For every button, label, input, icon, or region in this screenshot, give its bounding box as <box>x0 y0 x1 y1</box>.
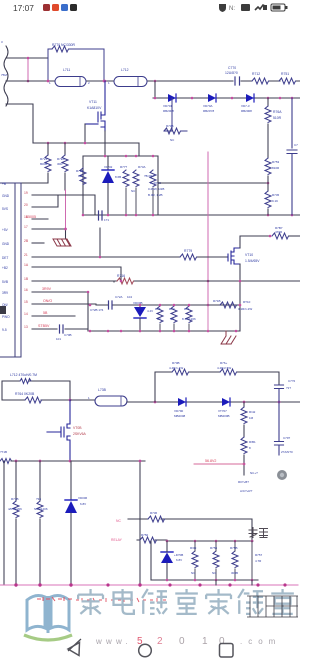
svg-text:B.0R, 1.2B: B.0R, 1.2B <box>148 193 163 197</box>
resistor R709 <box>192 551 198 568</box>
svg-text:2B: 2B <box>24 239 29 243</box>
wire diode rail y98 <box>153 81 300 98</box>
svg-text:R76+: R76+ <box>220 361 228 365</box>
wire bus y215 <box>83 214 300 216</box>
svg-text:5VS: 5VS <box>2 207 8 211</box>
svg-text:VD70A: VD70A <box>203 104 213 108</box>
svg-text:19: 19 <box>24 191 28 195</box>
svg-text:13: 13 <box>24 325 28 329</box>
svg-text:1M: 1M <box>249 416 254 420</box>
svg-text:C?2B 1?4: C?2B 1?4 <box>90 308 104 312</box>
inductor L711 <box>55 77 86 87</box>
resistor R751 <box>279 78 296 84</box>
svg-text:3R9V: 3R9V <box>42 287 52 291</box>
svg-text:1?1: 1?1 <box>104 218 109 222</box>
node dot (65.5,229) <box>64 228 67 231</box>
svg-text:R7E0: R7E0 <box>57 157 65 161</box>
zener VD00B <box>133 301 153 331</box>
svg-text:GND: GND <box>2 242 10 246</box>
SCHEMATIC SECTION 1 <box>0 40 300 357</box>
svg-text:R757: R757 <box>255 553 263 557</box>
wire bus y331 <box>90 330 240 332</box>
svg-text:R779: R779 <box>184 249 192 253</box>
node dot (70,400) <box>69 399 72 402</box>
wire row y282 <box>114 280 300 282</box>
svg-text:+5V: +5V <box>2 228 9 232</box>
svg-text:GND: GND <box>2 194 10 198</box>
node dot (95,81) <box>103 80 106 83</box>
svg-text:810R: 810R <box>272 166 280 170</box>
svg-text:8.1K/1206: 8.1K/1206 <box>182 317 196 321</box>
node dot (28,81) <box>27 80 30 83</box>
svg-text:VD006: VD006 <box>78 496 88 500</box>
wire source VT11 <box>104 131 106 156</box>
STATUS BAR <box>13 3 288 13</box>
diode VD790 <box>174 398 186 418</box>
small table grid over right watermark <box>247 596 298 617</box>
svg-text:14: 14 <box>24 312 28 316</box>
pin row y195 <box>32 195 95 215</box>
svg-text:R70B: R70B <box>172 361 180 365</box>
svg-text:L712 470uH/0.7M: L712 470uH/0.7M <box>10 373 37 377</box>
svg-text:K1A810V: K1A810V <box>87 106 102 110</box>
wire pink column x215 <box>207 152 209 305</box>
diode VD70A <box>203 94 216 113</box>
wire pink segment x28 <box>27 58 29 81</box>
wire bus right y580 <box>151 579 258 581</box>
svg-text:9.1K: 9.1K <box>272 199 278 203</box>
svg-text:R73B: R73B <box>166 124 174 128</box>
wire main rail y402 <box>127 401 300 403</box>
resistor R745 <box>267 183 269 191</box>
svg-text:2SKV6A: 2SKV6A <box>73 432 87 436</box>
svg-text:2: 2 <box>157 636 163 647</box>
svg-text:1A: 1A <box>24 263 29 267</box>
wire box sides <box>83 156 158 215</box>
resistor RV31 <box>243 425 245 437</box>
svg-text:R764 0K20B: R764 0K20B <box>15 392 35 396</box>
svg-text:?1?: ?1? <box>286 386 291 390</box>
MOSFET VT11 <box>85 81 105 131</box>
svg-text:R/09: R/09 <box>190 546 197 550</box>
svg-text:?34: ?34 <box>36 497 41 501</box>
pin row y304 <box>32 303 96 305</box>
svg-text:6.8V: 6.8V <box>176 558 182 562</box>
svg-text:R736: R736 <box>150 511 158 515</box>
resistor R716 <box>117 278 134 284</box>
svg-text:R73: R73 <box>169 307 175 311</box>
resistor R77x x126 <box>123 170 129 187</box>
svg-text:R721: R721 <box>40 157 48 161</box>
svg-text:C7?2: C7?2 <box>288 379 296 383</box>
svg-text:?B.0R?: ?B.0R? <box>144 174 154 178</box>
pin row y219 <box>32 218 48 220</box>
resistor R750 <box>140 537 157 543</box>
svg-text:R71B: R71B <box>11 497 19 501</box>
svg-text:VT10: VT10 <box>245 253 253 257</box>
resistor R73B x174 <box>171 306 177 323</box>
capacitor C707 on bus <box>99 211 103 220</box>
resistor R734b column x40 <box>39 461 41 501</box>
svg-text:12U/8?0: 12U/8?0 <box>225 71 238 75</box>
svg-text:101: 101 <box>56 337 61 341</box>
pin row y243 <box>32 242 44 244</box>
svg-text:2?A/N?0: 2?A/N?0 <box>281 450 293 454</box>
zener VD006 column x71 <box>70 461 72 500</box>
node dot (48,81) <box>47 80 50 83</box>
capacitor C72A <box>109 301 113 309</box>
capacitor C770 <box>235 77 240 85</box>
svg-text:R745: R745 <box>272 193 280 197</box>
svg-text:RELAY: RELAY <box>111 538 123 542</box>
resistor R764 (510R) on column x268 <box>267 98 269 106</box>
node dots diode rail <box>154 97 157 100</box>
svg-text:C79?: C79? <box>283 436 291 440</box>
svg-text:20: 20 <box>24 203 28 207</box>
svg-text:PWO: PWO <box>2 315 10 319</box>
inductor L712 coil on top rail <box>20 379 31 384</box>
pin row y292 <box>32 292 88 331</box>
resistor R770 <box>48 46 104 81</box>
svg-text:STB5V: STB5V <box>38 324 50 328</box>
node dot (28,58) <box>27 57 30 60</box>
wire into L730 <box>70 399 95 401</box>
svg-text:300B: 300B <box>231 571 238 575</box>
wire box top y156 <box>83 155 158 157</box>
ground symbol (slashes) <box>221 331 236 344</box>
wire bus bottom y585 full width (pink) <box>0 584 298 586</box>
node dot (244,464) <box>243 463 246 466</box>
capacitor C790 <box>275 402 284 455</box>
capacitor C70B on row y329 <box>60 325 64 333</box>
svg-text:4.4R/2.5W: 4.4R/2.5W <box>217 366 231 370</box>
svg-text:VD/02: VD/02 <box>104 165 113 169</box>
SCHEMATIC SECTION 2 <box>0 361 300 587</box>
pin row y316 <box>32 315 75 317</box>
node dot (145,81) <box>154 80 157 83</box>
resistor R712 <box>252 78 269 84</box>
pin row y257 (R779 gate row, drawn with main row) <box>32 256 100 258</box>
svg-text:0.1R/1.2W: 0.1R/1.2W <box>238 307 252 311</box>
svg-text:30R: 30R <box>57 162 63 166</box>
connector XS701 body <box>0 183 21 357</box>
svg-text:.com: .com <box>240 637 281 646</box>
svg-text:R770 NC/330R: R770 NC/330R <box>52 43 76 47</box>
svg-text:C72A: C72A <box>115 295 123 299</box>
wire row y143 <box>33 142 139 144</box>
MOSFET VT10 <box>228 248 240 264</box>
svg-text:15: 15 <box>24 300 28 304</box>
svg-text:17:07: 17:07 <box>13 3 34 13</box>
svg-text:A/C?+R?: A/C?+R? <box>240 489 253 493</box>
resistor R721 <box>47 143 49 155</box>
wire pink column x72 <box>65 190 67 233</box>
svg-text:0.25W, 1/2B: 0.25W, 1/2B <box>148 187 164 191</box>
pin row y267 <box>32 267 121 281</box>
svg-text:+D?0B: +D?0B <box>174 553 183 557</box>
resistor R779 <box>180 254 197 260</box>
resistor R738 (NC) below VD701 <box>164 98 187 131</box>
zener VD10B <box>150 541 152 580</box>
svg-text:21: 21 <box>24 253 28 257</box>
connector pin rows <box>32 195 121 331</box>
svg-text:75M: 75M <box>1 73 7 77</box>
svg-text:R0?+B?: R0?+B? <box>238 480 249 484</box>
wire row y253 gate VT10 <box>100 228 228 257</box>
resistor R728 on x83 <box>80 168 86 185</box>
red net 56.8V2 wire <box>194 463 244 465</box>
MOSFET VT06 <box>47 400 70 461</box>
watermark characters <box>78 589 294 615</box>
svg-text:?71B: ?71B <box>0 450 7 454</box>
svg-text:R712: R712 <box>252 72 260 76</box>
svg-text:9B: 9B <box>78 174 82 178</box>
svg-text:VT0B: VT0B <box>73 426 82 430</box>
svg-text:510R: 510R <box>273 116 282 120</box>
svg-text:5VB: 5VB <box>2 280 8 284</box>
svg-text:16: 16 <box>24 288 28 292</box>
svg-text:RT10: RT10 <box>243 300 251 304</box>
svg-text:4/R7/1206: 4/R7/1206 <box>8 507 22 511</box>
resistor column x252 <box>251 541 253 580</box>
snubber branch R708 R764 C7x2 <box>155 372 279 402</box>
resistor R753 <box>265 158 271 175</box>
resistor R756 <box>232 551 238 568</box>
svg-text:470R: 470R <box>275 230 283 234</box>
svg-text:4.4R/1.4W: 4.4R/1.4W <box>169 366 183 370</box>
svg-text:8.6B: 8.6B <box>115 175 121 179</box>
wire row y305 <box>96 304 240 306</box>
svg-text:R/B1: R/B1 <box>249 440 256 444</box>
pen mark <box>68 639 81 651</box>
wire main rail y81 <box>6 80 300 82</box>
diode VD707 <box>218 398 230 418</box>
svg-text:VT707: VT707 <box>218 409 227 413</box>
svg-text:17: 17 <box>24 225 28 229</box>
svg-text:R77?: R77? <box>120 165 128 169</box>
resistor R736 <box>148 516 165 522</box>
resistor R73A x136 <box>133 170 139 187</box>
svg-text:800B: 800B <box>40 162 47 166</box>
resistor R764b <box>220 369 237 375</box>
pin numbers <box>24 191 29 329</box>
resistor R764 <box>25 397 42 403</box>
NAV BAR <box>68 643 233 658</box>
svg-text:VT11: VT11 <box>89 100 97 104</box>
resistor x153 <box>150 170 156 187</box>
resistor R708 <box>172 369 189 375</box>
svg-text:MB2008: MB2008 <box>174 414 186 418</box>
svg-text:C70B: C70B <box>64 333 72 337</box>
node dot (270,232) <box>269 235 272 238</box>
resistor R718b column x16 <box>15 461 17 501</box>
svg-text:R716: R716 <box>117 274 125 278</box>
svg-text:N:: N: <box>229 6 235 12</box>
resistor RV42 <box>243 402 245 407</box>
node dot (88,292) <box>87 291 90 294</box>
svg-text:R73A: R73A <box>138 165 146 169</box>
svg-text:3R9: 3R9 <box>2 291 8 295</box>
svg-text:L73B: L73B <box>98 388 107 392</box>
svg-text:ON/O: ON/O <box>43 299 52 303</box>
svg-text:4.4V: 4.4V <box>147 309 153 313</box>
svg-text:R71B: R71B <box>213 299 221 303</box>
svg-text:1: 1 <box>202 636 208 647</box>
pin row y207 <box>32 196 58 207</box>
chassis ground symbol near connector <box>53 239 71 246</box>
svg-text:R75B: R75B <box>230 546 238 550</box>
svg-text:104: 104 <box>127 295 132 299</box>
pin row y329 (STB5V) <box>32 329 88 331</box>
gray circle component <box>277 470 287 480</box>
svg-text:+B2: +B2 <box>2 266 8 270</box>
stamp text (two dense glyph marks) <box>249 528 268 538</box>
transformer T1 winding (cut at left edge) <box>4 46 8 106</box>
svg-text:R76A: R76A <box>273 110 282 114</box>
svg-text:9-5: 9-5 <box>2 328 7 332</box>
svg-text:R71: R71 <box>184 307 190 311</box>
svg-text:RB2008: RB2008 <box>241 109 252 113</box>
node dot (105,81) <box>104 80 107 83</box>
svg-text:VD701: VD701 <box>163 104 173 108</box>
pin names inside connector <box>2 182 10 332</box>
svg-text:56.8V2: 56.8V2 <box>205 459 216 463</box>
svg-text:R753: R753 <box>272 160 280 164</box>
pin row y229 stub to chassis <box>32 229 66 238</box>
pin row y281 (R716 row start) <box>32 281 114 282</box>
diode VD701 <box>163 94 176 113</box>
column x4 <box>3 461 5 585</box>
svg-text:MB200B: MB200B <box>218 414 230 418</box>
svg-text:1.5/4/65V: 1.5/4/65V <box>245 259 260 263</box>
svg-text:L711: L711 <box>63 68 70 72</box>
svg-text:NC: NC <box>116 519 121 523</box>
svg-text:L5005: L5005 <box>26 215 36 219</box>
svg-text:R750: R750 <box>141 533 149 537</box>
svg-text:R72B: R72B <box>76 169 84 173</box>
svg-text:L712: L712 <box>121 68 129 72</box>
column x140 <box>139 461 141 585</box>
svg-text:R75: R75 <box>155 307 161 311</box>
svg-text:www.: www. <box>95 637 132 646</box>
zener VD702 <box>102 156 121 215</box>
svg-text:4.7R: 4.7R <box>255 559 262 563</box>
capacitor C7x right edge electrolytic <box>287 98 297 215</box>
resistor R707 <box>272 233 289 239</box>
wire loop bottom-left y104 <box>6 104 33 143</box>
wire y183 to R753 column <box>158 182 268 184</box>
inductor L730 <box>95 396 127 406</box>
svg-text:1B: 1B <box>24 277 29 281</box>
svg-text:DET: DET <box>2 256 8 260</box>
svg-text:RB20Y8: RB20Y8 <box>203 109 215 113</box>
svg-text:R/42: R/42 <box>249 410 256 414</box>
logo open book <box>27 596 69 633</box>
resistor R757 x160 <box>157 306 163 323</box>
svg-text:R751: R751 <box>281 72 289 76</box>
resistor R71x x189 <box>186 306 192 323</box>
svg-text:6.8V: 6.8V <box>80 502 86 506</box>
inductor L712 <box>114 77 147 87</box>
svg-text:NC+?: NC+? <box>250 471 258 475</box>
svg-text:R755: R755 <box>210 546 218 550</box>
svg-text:VD7-3: VD7-3 <box>241 104 250 108</box>
svg-text:C7: C7 <box>294 143 298 147</box>
svg-text:0: 0 <box>179 636 185 647</box>
svg-text:5B: 5B <box>43 311 48 315</box>
svg-text:VD790: VD790 <box>174 409 184 413</box>
wire bus y461 <box>11 460 145 462</box>
capacitor C7x2 <box>275 385 284 402</box>
svg-text:+B: +B <box>2 182 6 186</box>
wire top-left y58 <box>6 57 48 59</box>
resistor R718 0.1R in VT10 source <box>220 302 237 308</box>
resistor R755 <box>213 551 219 568</box>
black part at left edge <box>0 306 6 314</box>
red annotation over logo <box>37 597 166 602</box>
wire gate VT11 <box>84 124 86 143</box>
diode VD703 <box>241 94 254 113</box>
resistor R720 <box>64 143 66 155</box>
svg-text:NR1/1206: NR1/1206 <box>34 507 48 511</box>
svg-text:C770: C770 <box>228 66 236 70</box>
